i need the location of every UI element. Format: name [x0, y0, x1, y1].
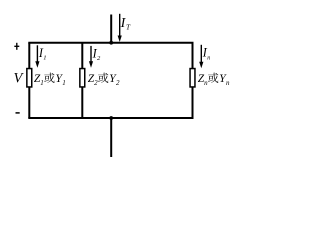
svg-text:n: n [207, 56, 210, 62]
svg-text:n: n [204, 79, 208, 87]
polarity - [16, 112, 20, 114]
svg-text:V: V [14, 70, 25, 86]
wire: top bus [28, 42, 193, 44]
wire: bottom bus [28, 117, 193, 119]
current arrow IT (total) [119, 14, 121, 37]
wire: branch n [192, 43, 194, 118]
svg-text:2: 2 [116, 79, 120, 87]
svg-text:2: 2 [97, 55, 101, 62]
current arrow I2 [90, 46, 92, 63]
svg-text:1: 1 [43, 54, 46, 61]
junction: top node [109, 41, 113, 45]
wire: bottom return to source [110, 118, 112, 157]
svg-text:n: n [226, 79, 230, 87]
svg-text:1: 1 [40, 79, 44, 87]
impedance Z1 (box) [27, 69, 32, 87]
junction: bottom node [109, 116, 113, 120]
svg-text:T: T [126, 23, 131, 32]
current arrow I1 [36, 45, 38, 62]
svg-text:2: 2 [94, 79, 98, 87]
wire: IT feed from source [110, 15, 112, 43]
impedance Zn (box) [190, 69, 195, 87]
current arrow In [200, 45, 202, 64]
wire: branch 2 [81, 43, 83, 118]
impedance Z2 (box) [80, 69, 85, 87]
wire: branch 1 [28, 43, 30, 118]
polarity + [14, 43, 19, 50]
svg-text:1: 1 [62, 79, 65, 87]
